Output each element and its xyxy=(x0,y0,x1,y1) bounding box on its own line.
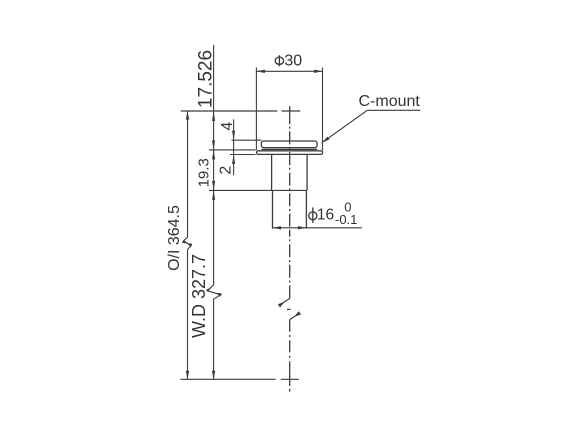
upper barrel left edge xyxy=(271,154,273,190)
arrow right phi30 xyxy=(314,70,323,73)
phi16 dimension line xyxy=(273,227,362,229)
break flag W.D right xyxy=(216,293,222,296)
C-mount ring (thread) xyxy=(261,141,317,148)
centerline upper segment xyxy=(289,127,291,230)
svg-text:-0.1: -0.1 xyxy=(335,212,357,227)
svg-text:O/I 364.5: O/I 364.5 xyxy=(166,205,183,271)
arrow right phi16 xyxy=(298,226,307,229)
extension line ring top (for dim 4) xyxy=(232,139,262,141)
text phi30 xyxy=(275,55,283,66)
centerline break symbol xyxy=(279,298,290,305)
break flag centerline left xyxy=(278,302,285,308)
flange plate xyxy=(257,151,323,155)
svg-text:2: 2 xyxy=(218,166,235,175)
centerline lower segment xyxy=(289,320,291,363)
break flag centerline right xyxy=(294,311,301,317)
upper barrel right edge xyxy=(306,154,308,190)
extension line plate bottom (for dim 2) xyxy=(230,154,256,156)
lower barrel right edge xyxy=(305,190,307,228)
dimension line O/I (x=187.5) xyxy=(187,111,189,237)
arrow down O/I bottom xyxy=(186,371,189,380)
svg-text:4: 4 xyxy=(219,122,236,131)
step line + left extension xyxy=(209,189,307,191)
svg-text:19.3: 19.3 xyxy=(196,158,213,187)
svg-text:C-mount: C-mount xyxy=(359,93,421,110)
object plane centerline cross xyxy=(281,378,299,380)
arrow C-mount leader xyxy=(322,137,330,143)
image plane centerline cross xyxy=(282,110,301,112)
centerline middle dash in break xyxy=(287,308,291,310)
arrow down W.D bottom xyxy=(212,371,215,380)
svg-text:17.526: 17.526 xyxy=(195,50,216,108)
svg-text:30: 30 xyxy=(284,52,302,69)
svg-text:16: 16 xyxy=(317,206,334,223)
svg-text:W.D 327.7: W.D 327.7 xyxy=(189,254,209,338)
phi30 dimension line xyxy=(256,70,322,72)
image plane line xyxy=(181,110,278,112)
text phi16 xyxy=(309,207,317,223)
W.D break symbol xyxy=(207,285,221,299)
dimension line 17.526 / 19.3 / W.D (x=213.6) xyxy=(213,45,215,285)
arrow left phi16 xyxy=(273,226,282,229)
arrow down dim4 xyxy=(232,131,235,141)
phi30 right extension line xyxy=(322,68,324,151)
arrow up O/I top xyxy=(186,111,189,120)
object plane line xyxy=(180,378,275,380)
arrow up W.D top xyxy=(212,190,215,200)
arrow up 19.3 top xyxy=(212,150,215,160)
break flag W.D left xyxy=(206,288,211,292)
ring bottom double line xyxy=(261,148,317,150)
arrow left phi30 xyxy=(256,70,265,73)
lower barrel left edge xyxy=(272,190,274,228)
arrow up 17.526 top xyxy=(212,111,215,121)
arrow up dim2 xyxy=(232,155,235,165)
O/I break symbol xyxy=(183,237,191,249)
break flag O/I right xyxy=(186,243,192,247)
arrow down 17.526 bottom xyxy=(212,140,215,150)
arrow down 19.3 bottom xyxy=(212,181,215,191)
break flag O/I left xyxy=(182,240,188,244)
extension line C-mount surface xyxy=(209,149,256,151)
dimension line 4 / 2 (x=233.6) xyxy=(233,119,235,175)
C-mount leader line xyxy=(322,110,421,143)
phi30 left extension line xyxy=(255,68,257,151)
